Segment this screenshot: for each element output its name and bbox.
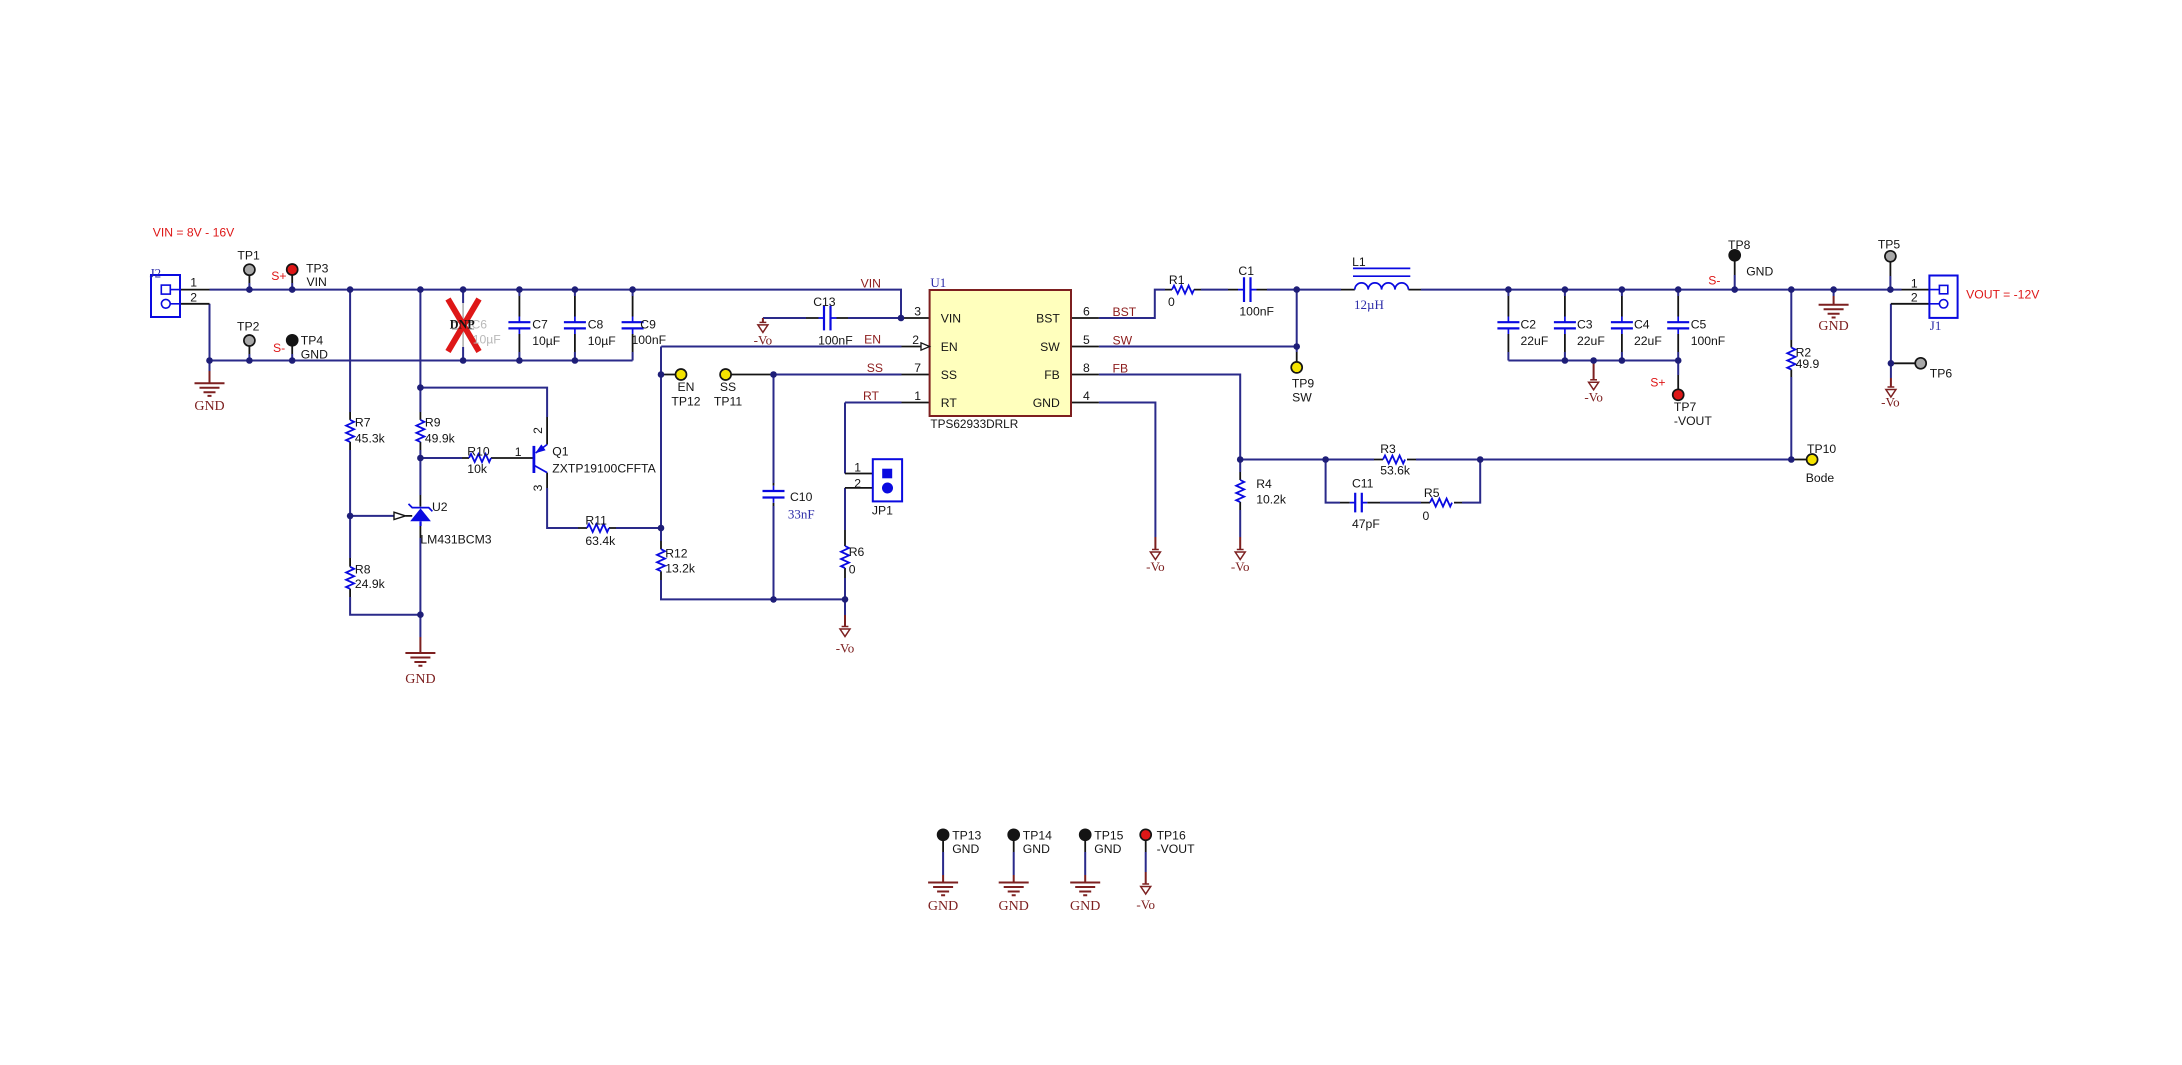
svg-text:C9: C9 bbox=[640, 318, 656, 332]
svg-text:VOUT = -12V: VOUT = -12V bbox=[1966, 288, 2040, 302]
svg-text:-Vo: -Vo bbox=[754, 333, 773, 348]
svg-text:L1: L1 bbox=[1352, 255, 1366, 269]
svg-text:GND: GND bbox=[1023, 842, 1050, 856]
svg-text:RT: RT bbox=[863, 389, 880, 403]
svg-text:33nF: 33nF bbox=[788, 507, 815, 522]
svg-text:3: 3 bbox=[914, 305, 921, 319]
svg-text:R1: R1 bbox=[1169, 273, 1185, 287]
svg-text:TP3: TP3 bbox=[306, 262, 329, 276]
svg-text:VIN: VIN bbox=[861, 277, 881, 291]
svg-text:TP16: TP16 bbox=[1157, 828, 1186, 842]
svg-text:S-: S- bbox=[273, 341, 285, 355]
svg-text:1: 1 bbox=[1911, 277, 1918, 291]
svg-text:VIN: VIN bbox=[941, 312, 961, 326]
svg-text:3: 3 bbox=[531, 484, 545, 491]
svg-text:22uF: 22uF bbox=[1521, 334, 1549, 348]
svg-text:24.9k: 24.9k bbox=[355, 577, 386, 591]
svg-text:C2: C2 bbox=[1521, 318, 1537, 332]
svg-text:-Vo: -Vo bbox=[1231, 559, 1250, 574]
svg-text:12µH: 12µH bbox=[1354, 297, 1384, 312]
svg-text:FB: FB bbox=[1044, 368, 1060, 382]
svg-text:-Vo: -Vo bbox=[1146, 559, 1165, 574]
svg-text:GND: GND bbox=[1070, 899, 1100, 914]
svg-text:TP1: TP1 bbox=[237, 249, 260, 263]
svg-text:C11: C11 bbox=[1352, 477, 1374, 491]
svg-text:SS: SS bbox=[720, 380, 736, 394]
svg-text:GND: GND bbox=[928, 899, 958, 914]
svg-text:GND: GND bbox=[194, 399, 224, 414]
svg-text:GND: GND bbox=[301, 348, 328, 362]
svg-text:R10: R10 bbox=[467, 445, 490, 459]
svg-text:TP15: TP15 bbox=[1094, 828, 1123, 842]
svg-text:1: 1 bbox=[914, 389, 921, 403]
svg-text:R9: R9 bbox=[425, 416, 441, 430]
svg-text:C4: C4 bbox=[1634, 318, 1650, 332]
svg-text:S-: S- bbox=[1708, 274, 1720, 288]
svg-text:-VOUT: -VOUT bbox=[1157, 842, 1195, 856]
svg-text:GND: GND bbox=[1818, 319, 1848, 334]
svg-text:C5: C5 bbox=[1691, 318, 1707, 332]
svg-text:TP10: TP10 bbox=[1807, 442, 1836, 456]
svg-text:U1: U1 bbox=[930, 275, 946, 290]
svg-text:SW: SW bbox=[1040, 340, 1060, 354]
svg-text:TP2: TP2 bbox=[237, 320, 260, 334]
svg-text:DNP: DNP bbox=[450, 318, 476, 332]
svg-text:63.4k: 63.4k bbox=[585, 534, 616, 548]
svg-text:10µF: 10µF bbox=[473, 332, 501, 346]
svg-text:SW: SW bbox=[1113, 334, 1133, 348]
svg-text:BST: BST bbox=[1113, 305, 1137, 319]
svg-text:R12: R12 bbox=[665, 547, 688, 561]
svg-text:EN: EN bbox=[864, 333, 881, 347]
svg-text:GND: GND bbox=[1746, 265, 1773, 279]
svg-text:C1: C1 bbox=[1238, 264, 1254, 278]
svg-text:TP12: TP12 bbox=[671, 395, 700, 409]
svg-text:EN: EN bbox=[678, 380, 695, 394]
svg-text:EN: EN bbox=[941, 340, 958, 354]
svg-text:0: 0 bbox=[849, 563, 856, 577]
svg-text:S+: S+ bbox=[1650, 376, 1665, 390]
svg-text:-Vo: -Vo bbox=[1584, 390, 1603, 405]
svg-text:BST: BST bbox=[1036, 312, 1060, 326]
svg-text:R7: R7 bbox=[355, 416, 371, 430]
svg-text:TP7: TP7 bbox=[1674, 400, 1697, 414]
svg-text:GND: GND bbox=[952, 842, 979, 856]
svg-text:GND: GND bbox=[1094, 842, 1121, 856]
svg-text:2: 2 bbox=[190, 290, 197, 304]
svg-text:0: 0 bbox=[1168, 295, 1175, 309]
svg-text:0: 0 bbox=[1423, 509, 1430, 523]
svg-text:22uF: 22uF bbox=[1577, 334, 1605, 348]
svg-text:22uF: 22uF bbox=[1634, 334, 1662, 348]
svg-text:10.2k: 10.2k bbox=[1256, 493, 1287, 507]
svg-text:7: 7 bbox=[914, 361, 921, 375]
svg-text:100nF: 100nF bbox=[1239, 305, 1274, 319]
svg-text:2: 2 bbox=[912, 333, 919, 347]
svg-text:ZXTP19100CFFTA: ZXTP19100CFFTA bbox=[552, 462, 656, 476]
svg-text:5: 5 bbox=[1083, 333, 1090, 347]
svg-text:TP5: TP5 bbox=[1878, 238, 1901, 252]
svg-text:TP6: TP6 bbox=[1930, 367, 1953, 381]
svg-text:GND: GND bbox=[999, 899, 1029, 914]
svg-text:100nF: 100nF bbox=[818, 334, 853, 348]
svg-text:-VOUT: -VOUT bbox=[1674, 414, 1712, 428]
svg-text:J1: J1 bbox=[1930, 318, 1942, 333]
svg-text:TP13: TP13 bbox=[952, 828, 981, 842]
svg-text:R6: R6 bbox=[849, 545, 865, 559]
svg-text:10µF: 10µF bbox=[588, 334, 616, 348]
svg-text:TP11: TP11 bbox=[714, 395, 742, 409]
svg-text:10k: 10k bbox=[467, 462, 488, 476]
svg-text:10µF: 10µF bbox=[532, 334, 560, 348]
svg-text:TP9: TP9 bbox=[1292, 377, 1315, 391]
svg-text:1: 1 bbox=[515, 445, 522, 459]
svg-text:R11: R11 bbox=[585, 514, 607, 528]
svg-text:TP8: TP8 bbox=[1728, 238, 1751, 252]
svg-text:R5: R5 bbox=[1424, 486, 1440, 500]
svg-text:TPS62933DRLR: TPS62933DRLR bbox=[930, 417, 1018, 431]
svg-text:GND: GND bbox=[1033, 396, 1060, 410]
svg-text:VIN: VIN bbox=[307, 275, 327, 289]
svg-text:R4: R4 bbox=[1256, 477, 1272, 491]
svg-text:FB: FB bbox=[1113, 362, 1129, 376]
svg-text:C13: C13 bbox=[813, 295, 836, 309]
svg-text:2: 2 bbox=[1911, 291, 1918, 305]
svg-text:S+: S+ bbox=[271, 269, 286, 283]
svg-text:Bode: Bode bbox=[1806, 471, 1835, 485]
svg-text:1: 1 bbox=[190, 276, 197, 290]
svg-text:R3: R3 bbox=[1380, 442, 1396, 456]
svg-text:SS: SS bbox=[941, 368, 957, 382]
svg-text:J2: J2 bbox=[150, 266, 162, 281]
svg-text:SW: SW bbox=[1292, 391, 1312, 405]
svg-text:100nF: 100nF bbox=[1691, 334, 1726, 348]
svg-text:VIN = 8V - 16V: VIN = 8V - 16V bbox=[153, 226, 235, 240]
svg-text:8: 8 bbox=[1083, 361, 1090, 375]
svg-text:C10: C10 bbox=[790, 490, 813, 504]
svg-text:U2: U2 bbox=[432, 500, 448, 514]
svg-text:1: 1 bbox=[854, 461, 861, 475]
svg-text:4: 4 bbox=[1083, 389, 1090, 403]
svg-text:2: 2 bbox=[531, 427, 545, 434]
svg-text:Q1: Q1 bbox=[552, 445, 568, 459]
svg-text:100nF: 100nF bbox=[632, 333, 667, 347]
svg-text:47pF: 47pF bbox=[1352, 517, 1380, 531]
svg-text:C8: C8 bbox=[588, 318, 604, 332]
svg-text:C3: C3 bbox=[1577, 318, 1593, 332]
svg-text:45.3k: 45.3k bbox=[355, 431, 386, 445]
svg-text:C7: C7 bbox=[532, 318, 548, 332]
svg-text:GND: GND bbox=[405, 672, 435, 687]
svg-text:13.2k: 13.2k bbox=[665, 562, 696, 576]
svg-text:TP4: TP4 bbox=[301, 334, 324, 348]
svg-text:-Vo: -Vo bbox=[1881, 395, 1900, 410]
svg-text:49.9k: 49.9k bbox=[425, 431, 456, 445]
svg-text:RT: RT bbox=[941, 396, 958, 410]
svg-text:-Vo: -Vo bbox=[1136, 897, 1155, 912]
svg-text:53.6k: 53.6k bbox=[1380, 464, 1411, 478]
svg-text:JP1: JP1 bbox=[872, 503, 893, 517]
svg-text:6: 6 bbox=[1083, 305, 1090, 319]
svg-text:R8: R8 bbox=[355, 563, 371, 577]
svg-text:LM431BCM3: LM431BCM3 bbox=[420, 533, 491, 547]
svg-text:-Vo: -Vo bbox=[836, 641, 855, 656]
svg-text:TP14: TP14 bbox=[1023, 828, 1052, 842]
svg-text:SS: SS bbox=[867, 361, 883, 375]
svg-text:49.9: 49.9 bbox=[1796, 357, 1820, 371]
svg-text:2: 2 bbox=[854, 477, 861, 491]
